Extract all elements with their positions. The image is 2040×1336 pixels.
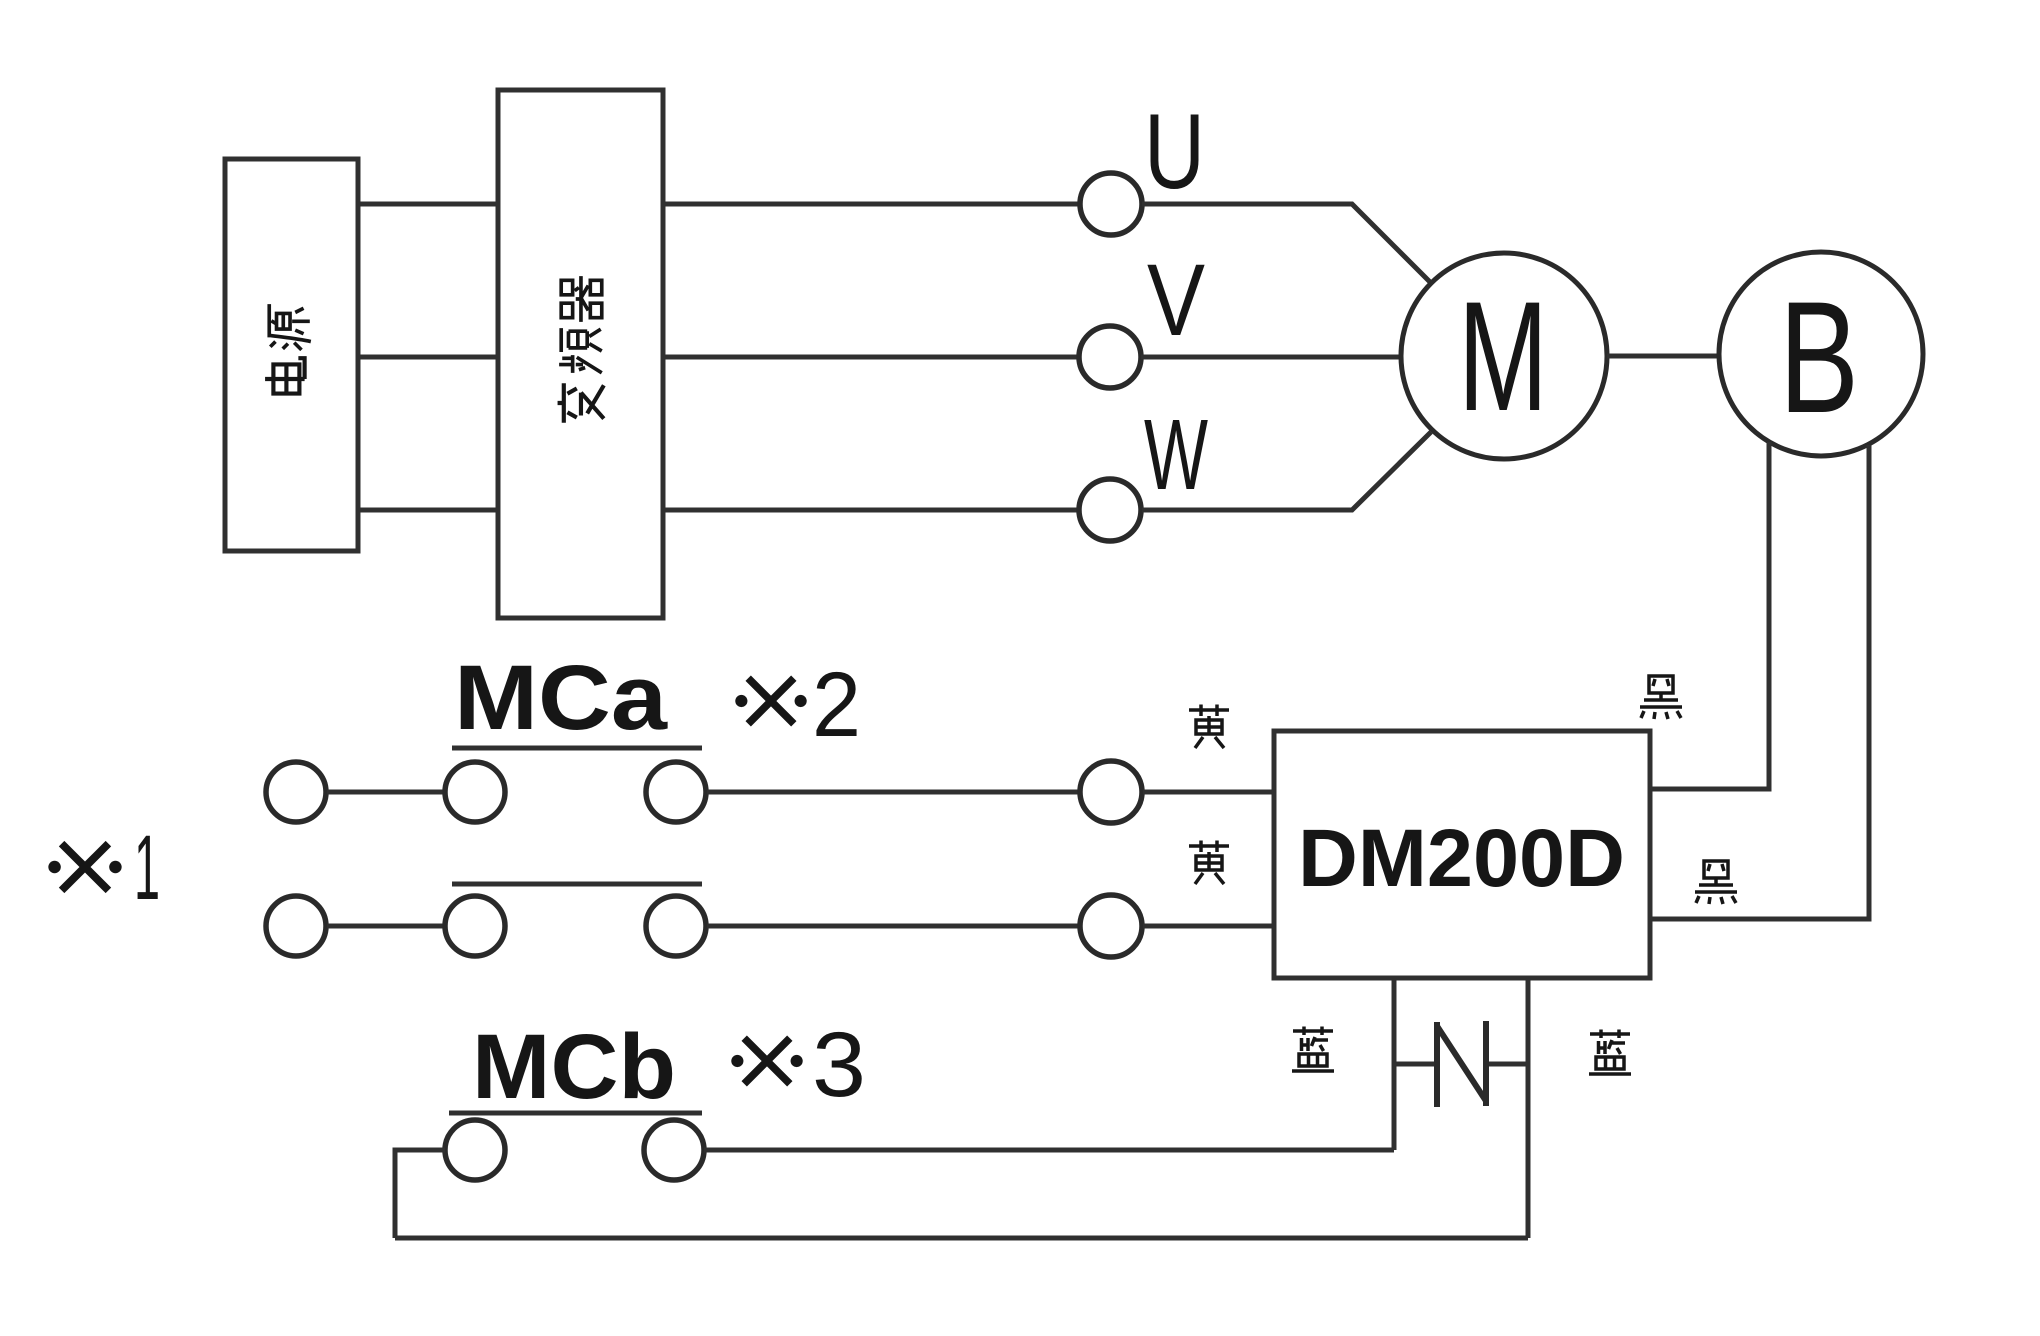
note mark ※1 (48, 844, 121, 891)
note mark ※2 (735, 678, 806, 724)
label 黑 upper (1640, 676, 1682, 719)
wire inverter to W terminal (663, 508, 1079, 513)
contact circle row1 c1 (266, 762, 326, 822)
wire row1 c3 to terminal (707, 790, 1080, 795)
svg-text:B: B (1779, 268, 1859, 446)
wire row2 c3 to terminal (707, 924, 1080, 929)
brake B circle (1719, 252, 1923, 456)
wire W to motor (1142, 432, 1431, 510)
contact circle row2 c2 (445, 896, 505, 956)
label 变频器 char 频 (559, 328, 602, 373)
terminal circle row2 (1080, 895, 1142, 957)
label 蓝 right (1589, 1030, 1631, 1075)
motor M circle (1401, 253, 1607, 459)
contact circle row1 c2 (445, 762, 505, 822)
thermal protector N symbol (1437, 1021, 1486, 1107)
svg-text:W: W (1144, 399, 1208, 511)
MCa contact bar row2 (452, 882, 702, 887)
wire motor to brake (1607, 354, 1719, 359)
box 变频器 (inverter) (498, 90, 663, 618)
svg-text:V: V (1147, 243, 1205, 357)
wire U to motor (1142, 204, 1431, 283)
contact circle MCb right (644, 1120, 704, 1180)
box 电源 (power supply) (225, 159, 358, 551)
wire row1 c1-c2 (327, 790, 445, 795)
wire power to inverter V (358, 355, 498, 360)
box DM200D (1274, 731, 1650, 978)
label 变频器 char 变 (558, 383, 604, 423)
label 蓝 left (1292, 1027, 1334, 1072)
thermal protector contact line right (1486, 1062, 1528, 1067)
label 黑 lower (1695, 861, 1737, 904)
svg-text:M: M (1458, 270, 1548, 444)
label 电源 char 电 (265, 358, 305, 393)
wire bottom run (395, 1236, 1528, 1241)
wire MCb left down to bottom run (395, 1150, 445, 1238)
label 电源 char 源 (269, 304, 311, 350)
contact circle row1 c3 (646, 762, 706, 822)
wire power to inverter W (358, 508, 498, 513)
wire inverter to V terminal (663, 355, 1079, 360)
label 变频器 char 器 (561, 276, 602, 322)
terminal circle row1 (1080, 761, 1142, 823)
svg-text:2: 2 (812, 654, 861, 756)
contact circle row2 c3 (646, 896, 706, 956)
wire MCb right to DM200D left stub (blue lead) (704, 1148, 1394, 1153)
wire brake left lead (black) down to DM200D (1650, 442, 1769, 789)
terminal circle U (1080, 173, 1142, 235)
MCa contact bar row1 (452, 746, 702, 751)
note mark ※3 (731, 1038, 802, 1084)
wire V to motor (1141, 355, 1401, 360)
MCb contact bar (449, 1111, 702, 1116)
wire power to inverter U (358, 202, 498, 207)
terminal circle V (1079, 326, 1141, 388)
svg-text:MCb: MCb (472, 1016, 676, 1118)
svg-text:U: U (1144, 91, 1205, 211)
wire row2 terminal to DM200D (yellow lead) (1143, 924, 1274, 929)
svg-text:DM200D: DM200D (1298, 813, 1625, 904)
svg-text:3: 3 (812, 1014, 866, 1116)
wire brake right lead (black) down to DM200D (1650, 445, 1869, 919)
label 黄 upper (1189, 705, 1229, 749)
svg-text:1: 1 (134, 817, 160, 919)
label 黄 lower (1189, 841, 1229, 885)
svg-text:MCa: MCa (454, 647, 668, 749)
contact circle row2 c1 (266, 896, 326, 956)
wire DM200D left stub (1392, 978, 1397, 1150)
wire row2 c1-c2 (327, 924, 445, 929)
wire DM200D right stub (blue lead) (1526, 978, 1531, 1238)
wire inverter to U terminal (663, 202, 1080, 207)
wire row1 terminal to DM200D (yellow lead) (1143, 790, 1274, 795)
terminal circle W (1079, 479, 1141, 541)
thermal protector contact line left (1394, 1062, 1437, 1067)
contact circle MCb left (445, 1120, 505, 1180)
